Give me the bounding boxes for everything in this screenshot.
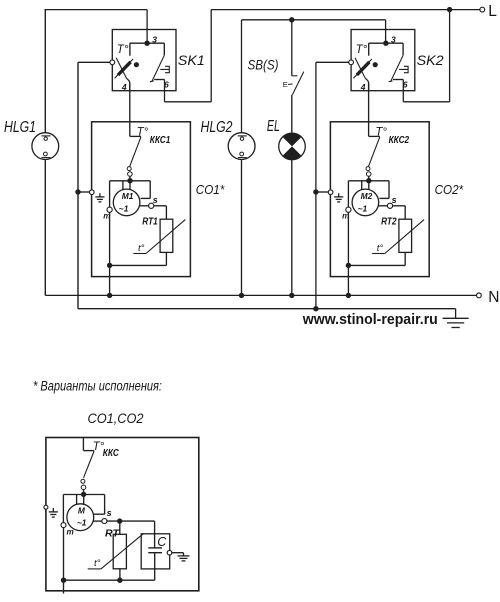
SK2 thermal cross stroke bbox=[355, 58, 365, 79]
terminal s variant bbox=[102, 519, 107, 524]
svg-text:6: 6 bbox=[403, 79, 408, 89]
svg-text:4: 4 bbox=[360, 82, 366, 92]
svg-text:CO2*: CO2* bbox=[435, 182, 464, 197]
thermal protector ККС variant bbox=[82, 438, 84, 451]
svg-text:~1: ~1 bbox=[77, 517, 87, 527]
wire variant to m terminal bbox=[62, 495, 64, 523]
wire start winding loop bbox=[388, 181, 390, 199]
wire motor return to N rail bbox=[347, 265, 349, 295]
wire s to RT2 bbox=[393, 205, 406, 207]
wire HLG2 drop bbox=[241, 20, 243, 133]
variant motor supply node bbox=[81, 492, 86, 497]
SK2 contact6 blade bbox=[391, 55, 403, 81]
svg-text:M: M bbox=[78, 506, 86, 516]
capacitor C plates bbox=[148, 547, 162, 549]
terminal T of SK2 bbox=[349, 60, 354, 65]
svg-text:t°: t° bbox=[138, 243, 145, 254]
terminal m variant bbox=[61, 523, 66, 528]
earth symbol of mains bbox=[455, 309, 457, 319]
svg-text:~1: ~1 bbox=[119, 204, 129, 214]
wire to m terminal bbox=[347, 181, 349, 207]
svg-text:s: s bbox=[392, 195, 397, 205]
wire variant winding stubs bbox=[76, 495, 78, 505]
lamp EL bbox=[279, 133, 306, 160]
neon lamp HLG1 bbox=[32, 133, 59, 160]
svg-text:s: s bbox=[153, 195, 158, 205]
door switch SB(S) bbox=[292, 75, 298, 77]
motor M1 bbox=[113, 189, 140, 216]
SK2 latch symbol bbox=[399, 66, 408, 72]
wire SK2 pin6 riser bbox=[402, 80, 404, 102]
svg-text:L: L bbox=[488, 3, 497, 20]
ground symbol variant bbox=[52, 508, 54, 512]
thermal protector ККС2 bbox=[369, 135, 380, 137]
svg-text:T°: T° bbox=[117, 44, 129, 56]
svg-text:SB(S): SB(S) bbox=[248, 58, 279, 73]
capacitor box bbox=[141, 534, 170, 569]
compressor unit CO1 box bbox=[92, 122, 191, 277]
motor M variant bbox=[67, 504, 94, 531]
svg-text:s: s bbox=[107, 508, 112, 518]
SK1 latch symbol bbox=[160, 66, 169, 72]
wire to m terminal bbox=[109, 181, 111, 207]
wire motor top bar bbox=[110, 180, 151, 182]
svg-text:t°: t° bbox=[377, 243, 384, 254]
wire left ground rail vertical bbox=[77, 62, 79, 308]
wire C branch drop bbox=[154, 521, 156, 548]
node motor return junction bbox=[107, 263, 112, 268]
compressor unit CO2 box bbox=[330, 122, 429, 277]
wire motor to s terminal bbox=[378, 205, 387, 207]
node on N rail bbox=[346, 293, 351, 298]
svg-text:ККС: ККС bbox=[103, 448, 120, 459]
svg-text:E: E bbox=[283, 80, 288, 89]
SK2 wire pin3 to contact6 bbox=[386, 42, 403, 44]
wire C case to earth bbox=[172, 552, 184, 554]
wire motor winding stubs bbox=[122, 181, 124, 190]
terminal T of SK1 bbox=[110, 60, 115, 65]
node ground tap bbox=[313, 189, 318, 194]
wire ground tap to case terminal bbox=[78, 191, 89, 193]
neon lamp HLG2 bbox=[228, 133, 255, 160]
wire protective earth rail bbox=[78, 308, 456, 310]
motor M2 bbox=[352, 189, 379, 216]
wire switched lamp net horizontal bbox=[242, 19, 386, 21]
posistor RT2 bbox=[399, 219, 412, 252]
terminal case ground of CO1 bbox=[90, 190, 95, 195]
terminal m of CO1 bbox=[107, 207, 112, 212]
wire SK2 ground rail vertical bbox=[315, 62, 317, 308]
wire from L line down then left to SK1 pin6 riser bbox=[210, 10, 212, 102]
SK1 inner wire pin3 to contact bbox=[130, 42, 147, 44]
node SK2 ground rail junction bbox=[313, 306, 318, 311]
SK1 contact6 blade bbox=[152, 55, 164, 81]
CO1 motor supply node bbox=[127, 178, 132, 183]
wire variant motor to s bbox=[93, 520, 102, 522]
wire variant motor top bar bbox=[63, 494, 104, 496]
wire from L junction down then left to SK2 pin6 riser bbox=[449, 10, 451, 102]
SK1 wire pin3 to contact6 bbox=[147, 42, 164, 44]
svg-text:www.stinol-repair.ru: www.stinol-repair.ru bbox=[302, 311, 438, 328]
SK1 pin6 pad bbox=[154, 79, 164, 81]
svg-text:RT2: RT2 bbox=[381, 216, 397, 228]
terminal C case bbox=[167, 550, 172, 555]
terminal N bbox=[477, 293, 482, 298]
SK1 movable blade bbox=[115, 59, 133, 78]
wire motor winding stubs bbox=[361, 181, 363, 190]
posistor RT variant bbox=[113, 534, 126, 569]
wire start winding loop bbox=[149, 181, 151, 199]
svg-text:SK2: SK2 bbox=[417, 52, 444, 68]
wire m terminal down bbox=[109, 212, 111, 265]
terminal m of CO2 bbox=[346, 207, 351, 212]
node ground tap bbox=[75, 189, 80, 194]
node RT on bottom rail bbox=[117, 578, 122, 583]
wire RT2 bottom to motor return bbox=[404, 252, 406, 265]
posistor RT1 bbox=[160, 219, 173, 252]
terminal L bbox=[480, 7, 485, 12]
node s branch junction bbox=[117, 518, 122, 523]
SK2 pin6 pad bbox=[393, 79, 403, 81]
wire L line horizontal bbox=[211, 9, 480, 11]
wire SK2 pin4 drop to KKC2 bbox=[368, 83, 370, 136]
wire motor return to N rail bbox=[109, 265, 111, 295]
ground terminal variant bbox=[44, 505, 48, 509]
wire SB(S) drop bbox=[291, 20, 293, 76]
wire RT bottom variant bbox=[119, 569, 121, 580]
wire SB to EL bbox=[291, 95, 293, 133]
svg-text:N: N bbox=[488, 289, 499, 306]
svg-text:C: C bbox=[157, 535, 167, 549]
wire EL to N rail bbox=[291, 160, 293, 296]
terminal s of CO2 bbox=[387, 203, 392, 208]
node HLG2 on N rail bbox=[239, 293, 244, 298]
RT variant temperature diagonal bbox=[88, 568, 101, 570]
svg-text:M2: M2 bbox=[361, 191, 373, 201]
node L junction bbox=[447, 7, 452, 12]
svg-text:M1: M1 bbox=[122, 191, 134, 201]
svg-text:RT1: RT1 bbox=[142, 216, 158, 228]
wire N rail bbox=[45, 294, 478, 296]
ground symbol of CO2 bbox=[338, 193, 340, 197]
wire RT1 bottom to motor return bbox=[165, 252, 167, 265]
svg-text:HLG2: HLG2 bbox=[201, 119, 233, 136]
SK2 blade to pin4 curve bbox=[365, 79, 368, 91]
wire variant start loop bbox=[104, 495, 106, 515]
wire left rail from top corner down to N rail bbox=[44, 9, 46, 133]
wire s to RT1 bbox=[154, 205, 167, 207]
node motor return junction bbox=[346, 263, 351, 268]
node lamp net junction bbox=[289, 17, 294, 22]
terminal s of CO1 bbox=[149, 203, 154, 208]
thermostat SK1 box bbox=[112, 30, 176, 91]
wire SK1 pin4 drop to KKC1 bbox=[129, 83, 131, 136]
svg-text:* Варианты исполнения:: * Варианты исполнения: bbox=[33, 378, 162, 393]
ground symbol of CO1 bbox=[99, 193, 101, 197]
thermal protector ККС1 bbox=[130, 135, 141, 137]
thermostat SK2 box bbox=[351, 30, 415, 91]
svg-text:4: 4 bbox=[121, 82, 127, 92]
svg-text:EL: EL bbox=[267, 118, 280, 135]
svg-text:HLG1: HLG1 bbox=[4, 119, 36, 136]
svg-text:~1: ~1 bbox=[358, 204, 368, 214]
SK1 fixed contact dot bbox=[134, 62, 139, 67]
svg-text:SK1: SK1 bbox=[178, 52, 205, 68]
svg-text:t°: t° bbox=[94, 558, 101, 569]
wire KKC variant lower lead bbox=[83, 490, 85, 495]
wire ground tap to case terminal bbox=[316, 191, 328, 193]
variant box bbox=[46, 438, 199, 591]
wire C bottom plate to rail bbox=[154, 553, 156, 581]
wire SK2 T-pin to rail bbox=[316, 61, 349, 63]
earth symbol of C bbox=[183, 553, 185, 556]
SK2 fixed contact dot bbox=[373, 62, 378, 67]
wire variant bottom rail bbox=[64, 579, 155, 581]
svg-text:CO1,CO2: CO1,CO2 bbox=[88, 411, 144, 426]
SK2 inner wire pin3 to contact bbox=[369, 42, 386, 44]
svg-text:6: 6 bbox=[164, 79, 169, 89]
RT2 temperature diagonal bbox=[372, 253, 385, 255]
wire motor to s terminal bbox=[139, 205, 148, 207]
SK1 blade to pin4 curve bbox=[127, 79, 130, 91]
wire SK1 pin3 vertical drop bbox=[146, 10, 148, 44]
wire s to RT and C bbox=[107, 520, 155, 522]
SK1 pin 3 node bbox=[144, 41, 149, 46]
SK2 pin 3 node bbox=[383, 41, 388, 46]
wire branch to RT variant bbox=[119, 521, 121, 534]
wire top-left horizontal to SK1 pin 3 drop bbox=[45, 9, 148, 11]
wire SK1 pin6 riser bbox=[164, 80, 166, 102]
svg-text:CO1*: CO1* bbox=[196, 182, 225, 197]
wire SK2 pin3 drop bbox=[385, 20, 387, 43]
CO2 motor supply node bbox=[366, 178, 371, 183]
wire m terminal down bbox=[347, 212, 349, 265]
SK2 movable blade bbox=[353, 59, 371, 78]
svg-text:T°: T° bbox=[356, 44, 368, 56]
wire ККС2 lower lead bbox=[368, 176, 370, 180]
node m rail on bottom rail bbox=[61, 578, 66, 583]
svg-text:ККС2: ККС2 bbox=[389, 135, 410, 146]
terminal case ground of CO2 bbox=[328, 190, 333, 195]
node EL on N rail bbox=[289, 293, 294, 298]
wire ККС1 lower lead bbox=[129, 176, 131, 180]
wire motor top bar bbox=[348, 180, 389, 182]
node on N rail bbox=[107, 293, 112, 298]
SK1 thermal cross stroke bbox=[116, 58, 126, 79]
RT1 temperature diagonal bbox=[133, 253, 146, 255]
wire m rail down variant bbox=[63, 528, 65, 581]
wire SK1 T-pin to left ground rail bbox=[78, 61, 110, 63]
svg-text:ККС1: ККС1 bbox=[150, 135, 171, 146]
wire HLG2 to N rail bbox=[241, 160, 243, 296]
